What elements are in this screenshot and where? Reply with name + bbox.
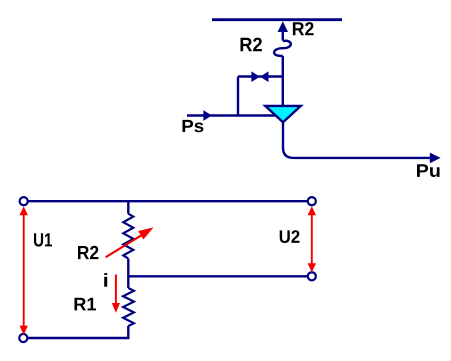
wire middle <box>128 275 307 277</box>
arrow i <box>112 275 120 313</box>
label Pu <box>417 164 440 177</box>
Pu output wire <box>283 121 441 163</box>
label Ps <box>183 120 204 132</box>
arrow U2 <box>308 206 316 272</box>
potentiometer R2 red arrow <box>106 227 154 257</box>
wire stem between R2 and R1 <box>127 259 129 288</box>
baffle wall bar <box>212 18 342 21</box>
terminal bottom-left <box>19 334 27 342</box>
label R2 (top right) <box>293 22 314 35</box>
terminal top-left <box>20 197 28 205</box>
wire stem above R2 <box>127 200 129 214</box>
wire top <box>28 200 307 202</box>
label U2 <box>280 230 300 243</box>
terminal mid-right <box>308 272 316 280</box>
nozzle back-pressure arrow <box>278 21 288 40</box>
valve bowtie <box>251 71 268 82</box>
potentiometer R2 zigzag <box>123 214 133 259</box>
wire valve branch horizontal <box>238 75 283 77</box>
nozzle triangle <box>265 106 301 122</box>
terminal top-right <box>308 197 316 205</box>
label R2 (potentiometer) <box>78 246 98 259</box>
wire stem below R1 <box>127 326 129 339</box>
Ps input wire <box>187 110 276 121</box>
label U1 <box>34 233 52 246</box>
arrow U1 <box>20 206 28 335</box>
label R1 <box>75 298 97 311</box>
wire bottom <box>28 337 130 339</box>
resistor R1 zigzag <box>123 288 134 326</box>
label i <box>104 273 107 287</box>
wire valve branch vertical <box>237 77 239 116</box>
wire vertical stem <box>282 56 284 106</box>
restrictor R2 squiggle <box>274 41 291 56</box>
label R2 (left of squiggle) <box>241 38 262 52</box>
